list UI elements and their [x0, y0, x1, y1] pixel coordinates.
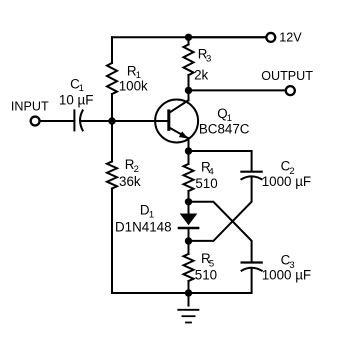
- node collector/output junction: [185, 87, 192, 94]
- svg-text:100k: 100k: [119, 78, 148, 93]
- label D1: [140, 202, 154, 220]
- node emitter junction: [185, 147, 192, 154]
- svg-text:1000 µF: 1000 µF: [262, 174, 311, 189]
- resistor R5: [184, 254, 194, 281]
- wire R4 node to crossover to C3: [189, 202, 252, 262]
- wire emitter to C2: [189, 151, 252, 171]
- wire C2 bottom to crossover: [189, 178, 252, 241]
- svg-text:12V: 12V: [279, 30, 302, 44]
- svg-text:D1N4148: D1N4148: [115, 220, 172, 235]
- resistor R1: [107, 63, 117, 94]
- wire base: [112, 120, 168, 122]
- wire left rail mid: [111, 94, 113, 162]
- wire output: [189, 89, 286, 91]
- wire R4 bottom lead: [188, 191, 190, 202]
- svg-text:2k: 2k: [194, 67, 208, 82]
- label R3: [198, 47, 211, 65]
- svg-text:BC847C: BC847C: [199, 121, 250, 136]
- wire R5 top lead: [188, 241, 190, 254]
- wire left rail lower: [111, 189, 113, 294]
- label Q1: [217, 106, 232, 124]
- diode D1: [179, 202, 198, 241]
- wire left rail upper: [111, 37, 113, 63]
- label C1: [70, 76, 84, 93]
- wire R3 top lead: [188, 37, 190, 44]
- wire bottom rail left: [112, 292, 189, 294]
- terminal 12V: [266, 33, 275, 42]
- svg-text:1000 µF: 1000 µF: [262, 268, 311, 283]
- wire R5 bottom lead: [188, 281, 190, 293]
- svg-text:3: 3: [206, 54, 211, 65]
- capacitor C1: [74, 110, 82, 130]
- wire collector: [188, 90, 190, 100]
- ground: [178, 293, 198, 323]
- wire C3 bottom to ground rail: [189, 269, 252, 293]
- wire R4 top lead: [188, 151, 190, 164]
- wire emitter: [188, 138, 190, 151]
- resistor R3: [184, 45, 194, 76]
- svg-text:510: 510: [195, 176, 217, 191]
- node R4-D1 junction: [185, 198, 192, 205]
- label C3: [281, 253, 295, 272]
- wire top rail: [112, 36, 265, 38]
- label C2: [281, 159, 295, 177]
- node ground junction: [185, 289, 192, 296]
- svg-text:10 µF: 10 µF: [59, 93, 94, 108]
- svg-text:INPUT: INPUT: [11, 100, 49, 114]
- label R2: [125, 157, 139, 175]
- node 12V rail junction: [185, 34, 192, 41]
- capacitor C2: [241, 172, 261, 180]
- terminal INPUT: [31, 117, 40, 126]
- transistor Q1: [155, 100, 198, 143]
- label R1: [127, 63, 141, 81]
- wire 12V feed: [189, 36, 266, 38]
- wire input: [40, 120, 74, 122]
- resistor R4: [184, 164, 194, 191]
- capacitor C3: [242, 263, 262, 271]
- label R4: [201, 159, 214, 177]
- node main input junction: [108, 117, 115, 124]
- svg-text:510: 510: [195, 267, 217, 282]
- node D1-R5 junction: [185, 237, 192, 244]
- label R5: [201, 251, 214, 269]
- svg-text:OUTPUT: OUTPUT: [261, 69, 313, 83]
- svg-text:36k: 36k: [119, 174, 141, 189]
- wire C1 to node: [81, 120, 112, 122]
- resistor R2: [107, 162, 117, 189]
- terminal OUTPUT: [286, 86, 295, 95]
- wire R3 bottom lead: [188, 75, 190, 90]
